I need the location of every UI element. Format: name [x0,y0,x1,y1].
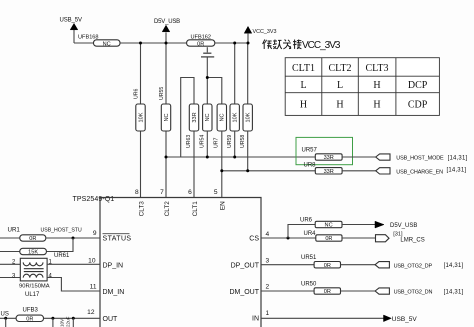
resistor UR50 (0R) [301,282,341,296]
svg-text:2: 2 [266,284,270,291]
resistor UFB168 [78,35,120,48]
resistor UR58 (10K) [240,104,253,148]
svg-text:15K: 15K [28,250,38,256]
wire pin 3 DP_OUT row [261,264,314,266]
svg-text:UR1: UR1 [8,226,21,233]
pin 2 DM_OUT [229,284,269,296]
power symbol USB_5V [60,17,83,43]
pin 6 label CLT1 [188,189,199,217]
wire 15K branch [46,238,73,252]
resistor UR59 (10K) [227,104,240,148]
svg-text:DP_IN: DP_IN [103,262,124,269]
capacitor branch 2 [72,318,74,327]
svg-text:0R: 0R [197,41,204,47]
svg-text:UR8: UR8 [304,162,317,168]
junction OUT left dot [4,317,7,320]
wire UR54 bottom to CLT2 net [206,131,208,157]
svg-text:UL17: UL17 [25,292,40,298]
wire UR63 top U-link to CLT2 net [181,78,194,158]
pin 7 label CLT2 [160,189,171,217]
svg-text:8: 8 [135,189,139,196]
pin 5 label EN [214,189,227,210]
svg-text:33R: 33R [324,169,334,175]
svg-text:9: 9 [93,230,97,237]
svg-text:STATUS: STATUS [103,236,132,243]
wire UR63 column bottom to pin 6 [193,131,195,198]
svg-text:4: 4 [266,231,270,238]
wire UR54/UR7 top link [207,78,222,105]
green highlight box [296,137,353,164]
wire UR55 column bottom to pin 7 [165,131,167,198]
pin 11 DM_IN [90,284,125,296]
svg-text:UR61: UR61 [54,253,70,259]
svg-text:USB_5V: USB_5V [60,17,83,23]
resistor UR57 (33R) [302,148,343,162]
svg-text:USB_CHARGE_EN: USB_CHARGE_EN [396,170,443,176]
wire pin 4 CS row [261,237,316,239]
wire UR7 bottom to pin 5 [221,131,223,198]
pin 1 IN [252,310,270,322]
capacitor under UFB162 [201,47,214,77]
svg-text:LMR_CS: LMR_CS [400,237,424,243]
svg-text:EN: EN [220,201,227,210]
net flag USB_CHARGE_EN [376,168,467,176]
svg-text:NC: NC [325,223,333,229]
svg-text:10K: 10K [246,112,252,122]
svg-text:USB_HOST_MODE: USB_HOST_MODE [396,156,444,162]
svg-text:5: 5 [214,189,218,196]
wire cap branch left [5,318,7,327]
svg-text:33R: 33R [192,112,198,122]
wire UR55 column top [165,43,167,104]
wire choke pin3 row [0,277,20,279]
svg-text:UR51: UR51 [301,255,317,261]
pin 4 CS [249,231,269,243]
svg-text:10K: 10K [138,112,144,122]
svg-text:CS: CS [249,236,259,243]
resistor UFB162 [187,34,215,47]
resistor UR61 (15K) [20,248,70,259]
svg-text:UR4: UR4 [304,231,317,237]
wire choke pin1 to DP_IN [47,263,100,265]
resistor UR51 (0R) [301,255,341,269]
net flag USB_OTG2_DP [375,262,463,270]
svg-text:UR7: UR7 [213,138,219,148]
resistor UR7 (NC) [213,104,226,148]
pin 3 DP_OUT [231,257,270,269]
wire OUT row left [0,317,16,319]
wire CS to UR6 branch [288,225,315,239]
power symbol VCC_3V3 [244,26,276,43]
wire CLT2 net row to UR57 [166,156,315,158]
wire UR6 column top [140,43,142,104]
svg-text:NC: NC [220,113,226,121]
wire choke pin2 row [0,263,20,265]
svg-text:10: 10 [88,257,96,264]
svg-text:D5V_USB: D5V_USB [390,223,417,229]
svg-text:11: 11 [90,284,97,291]
svg-text:CLT2: CLT2 [329,63,352,74]
wire STATUS row left [0,237,20,239]
svg-text:90R/150MA: 90R/150MA [19,284,50,290]
wire UR8 to flag [342,170,376,172]
resistor UR1 (0R) [8,226,46,242]
svg-text:L: L [337,80,343,91]
svg-text:1: 1 [266,310,270,317]
resistor UR8 (33R) [304,162,343,175]
resistor UR55 (NC) [159,87,171,131]
svg-text:12: 12 [87,309,95,316]
svg-text:US: US [1,311,9,317]
junction cap node [206,76,209,79]
svg-text:USB_HOST_STU: USB_HOST_STU [41,227,82,233]
junction EN net dots [220,169,249,172]
wire UR51 to flag [341,264,376,266]
svg-text:DM_OUT: DM_OUT [229,289,259,296]
wire UR6 column bottom to pin 8 [140,131,142,198]
svg-text:0R: 0R [325,236,332,242]
svg-text:D5V_USB: D5V_USB [154,19,180,25]
wire choke pin4 to DM_IN [47,278,100,292]
svg-text:USB_5V: USB_5V [392,316,418,323]
pin 10 DP_IN [88,257,123,269]
svg-text:10V: 10V [60,318,65,327]
junction CLT2 net dots [165,156,237,159]
wire 15K row left [0,251,20,253]
svg-text:H: H [336,100,343,111]
svg-text:[14,31]: [14,31] [448,156,468,162]
svg-text:USB_OTG2_DP: USB_OTG2_DP [394,263,433,269]
svg-text:UR58: UR58 [240,135,246,148]
junction output cap node 2 [72,317,75,320]
svg-text:UR54: UR54 [200,135,206,148]
net flag LMR_CS [376,231,425,243]
svg-text:UR50: UR50 [301,282,317,288]
resistor UFB3 (0R) [16,308,43,323]
svg-text:22uF: 22uF [66,316,71,327]
net flag USB_OTG2_DN [375,288,463,296]
junction bus dots [139,42,250,45]
svg-text:OUT: OUT [103,316,119,323]
power arrow D5V_USB right [375,221,417,229]
svg-text:7: 7 [160,189,164,196]
net flag USB_HOST_MODE [376,154,468,162]
svg-text:[14,31]: [14,31] [447,168,467,174]
svg-text:CLT3: CLT3 [366,63,389,74]
svg-text:H: H [373,100,380,111]
wire UR59 column top [234,43,236,104]
wire UFB3 to pin 12 [44,317,101,319]
svg-text:UFB3: UFB3 [23,308,39,314]
svg-text:L: L [300,80,306,91]
svg-text:NC: NC [205,113,211,121]
svg-text:CLT1: CLT1 [192,201,199,217]
svg-text:UR55: UR55 [159,87,165,100]
svg-text:0R: 0R [26,317,33,323]
svg-text:UR63: UR63 [186,135,192,148]
svg-text:NC: NC [164,113,170,121]
resistor UR6b (NC) [300,217,342,228]
pin 12 OUT [87,309,118,323]
svg-text:CDP: CDP [408,100,428,111]
junction CS node [287,237,290,240]
svg-text:3: 3 [266,257,270,264]
svg-text:IN: IN [252,315,259,322]
power arrow USB_5V right [384,315,418,323]
wire pin 1 IN row [261,317,384,319]
svg-text:VCC_3V3: VCC_3V3 [253,29,277,35]
svg-text:10K: 10K [233,112,239,122]
capacitor branch 1 [52,318,54,327]
junction STATUS node [72,237,75,240]
resistor UR63 (33R) [186,104,199,148]
svg-text:CLT3: CLT3 [138,201,145,217]
svg-text:NC: NC [103,41,111,47]
wire UR58 column top [247,43,249,104]
wire UR1 to pin 9 [46,237,100,239]
svg-text:UR6: UR6 [133,89,139,99]
annotation chinese note [263,39,341,50]
junction output cap node 1 [51,317,54,320]
svg-text:DP_OUT: DP_OUT [231,262,260,269]
svg-text:H: H [300,100,307,111]
wire UR50 to flag [341,290,376,292]
svg-text:[14,31]: [14,31] [444,290,464,296]
svg-text:6: 6 [188,189,192,196]
op IC U? TPS2549-Q1 box [73,196,262,327]
svg-text:UR6: UR6 [300,217,313,223]
wire top bus D5V_USB rail [74,42,187,44]
wire UR58 bottom to EN net [247,131,249,171]
svg-text:[14,31]: [14,31] [444,263,464,269]
wire EN net row to UR8 [222,170,315,172]
svg-text:UR57: UR57 [302,148,318,154]
svg-text:33R: 33R [324,155,334,161]
svg-text:CLT2: CLT2 [164,201,171,217]
svg-text:4: 4 [49,273,53,279]
svg-text:0R: 0R [29,236,36,242]
wire UR4 to LMR_CS flag [342,237,376,239]
pin 8 label CLT3 [135,189,145,217]
table CLT truth table [285,58,439,116]
wire pin 2 DM_OUT row [261,290,314,292]
wire UR57 to flag [342,156,376,158]
wire UR6b to D5V_USB arrow [342,224,375,226]
resistor UR54 (NC) [200,104,213,148]
pin 9 STATUS [93,230,132,243]
wire UR59 bottom to CLT2 net [234,131,236,157]
wire bus right of UFB162 [215,42,248,44]
resistor UR6 (10K pullup) [133,89,145,131]
svg-text:CLT1: CLT1 [292,63,315,74]
common-mode choke UL17 [12,258,53,298]
resistor UR4 (0R) [304,231,343,242]
svg-text:H: H [373,80,380,91]
svg-text:UR59: UR59 [227,135,233,148]
svg-text:3: 3 [12,273,16,279]
svg-text:0R: 0R [324,263,331,269]
svg-text:VCC_3V3: VCC_3V3 [302,40,341,51]
svg-text:0R: 0R [324,289,331,295]
power symbol D5V_USB [154,19,180,43]
svg-text:USB_OTG2_DN: USB_OTG2_DN [394,290,433,296]
svg-text:DCP: DCP [408,80,428,91]
svg-text:DM_IN: DM_IN [103,289,125,296]
